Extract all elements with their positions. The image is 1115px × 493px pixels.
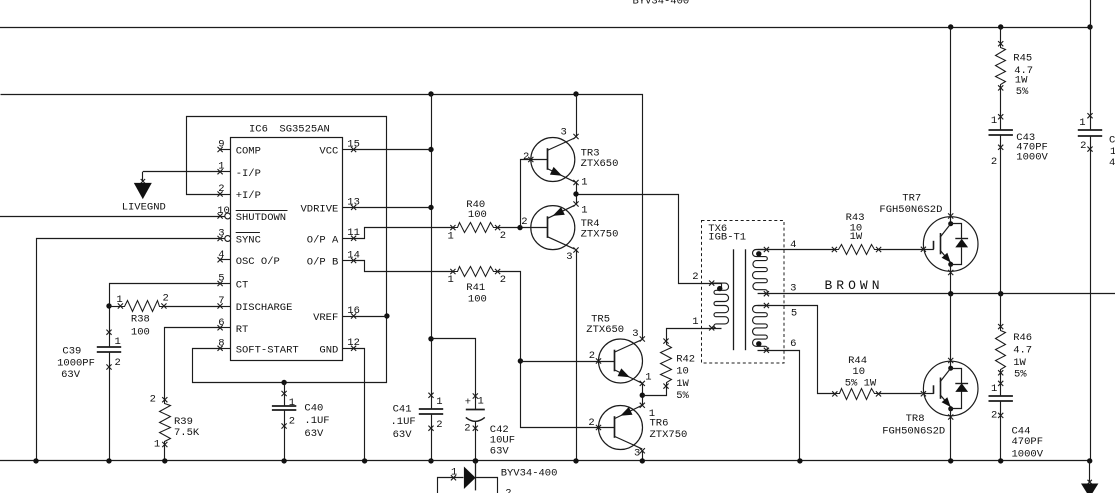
pin 12 GND of IC6 <box>319 337 360 356</box>
svg-text:VCC: VCC <box>319 146 338 158</box>
svg-text:BYV34-400: BYV34-400 <box>501 467 558 479</box>
junction rail at ground <box>428 458 433 463</box>
wire VREF to +I/P and SOFT-START loop <box>187 117 387 383</box>
wire VDRIVE pin to rail <box>354 207 431 209</box>
svg-text:5% 1W: 5% 1W <box>845 378 877 390</box>
svg-text:R45: R45 <box>1013 53 1032 65</box>
capacitor C39 <box>57 330 121 382</box>
svg-text:1: 1 <box>436 396 442 408</box>
wire TX6 pin5 to R44 <box>758 306 835 394</box>
svg-text:RT: RT <box>236 324 249 336</box>
svg-text:CT: CT <box>236 280 249 292</box>
wire R45 to C43 <box>1000 88 1002 130</box>
junction C40 ground <box>281 458 286 463</box>
junction TX6 pin6 ground <box>797 458 802 463</box>
junction CT column ground <box>106 458 111 463</box>
svg-text:2: 2 <box>589 350 595 362</box>
junction C42 branch at rail <box>428 336 433 341</box>
wire C45 column stub above rail <box>1090 0 1092 27</box>
svg-text:ZTX750: ZTX750 <box>581 229 619 241</box>
wire TR4 collector to ground <box>576 250 578 461</box>
svg-text:5%: 5% <box>1016 86 1029 98</box>
svg-text:4: 4 <box>218 249 224 261</box>
capacitor C40 <box>272 383 330 461</box>
svg-text:1W: 1W <box>1015 75 1028 87</box>
svg-text:BYV34-400: BYV34-400 <box>633 0 690 7</box>
junction diode cathode at ground rail <box>473 458 478 463</box>
svg-text:10: 10 <box>852 366 865 378</box>
junction SYNC ground <box>33 458 38 463</box>
resistor R43 <box>832 212 881 255</box>
resistor R40 <box>447 199 506 243</box>
wire TR5 emitter junction <box>642 383 644 405</box>
svg-text:BROWN: BROWN <box>825 278 884 293</box>
svg-text:1: 1 <box>1079 117 1085 129</box>
svg-text:TR6: TR6 <box>650 417 669 429</box>
svg-text:6: 6 <box>790 338 796 350</box>
svg-text:2: 2 <box>436 419 442 431</box>
resistor R44 <box>832 355 881 400</box>
svg-text:1: 1 <box>581 177 587 189</box>
wire VCC rail y=94 <box>1 95 643 340</box>
junction C42 ground <box>473 458 478 463</box>
svg-text:SOFT-START: SOFT-START <box>236 345 299 357</box>
svg-text:2: 2 <box>115 357 121 369</box>
svg-text:SHUTDOWN: SHUTDOWN <box>236 212 286 224</box>
pin 2 +I/P of IC6 <box>218 183 261 202</box>
svg-text:14: 14 <box>347 249 360 261</box>
pin 16 VREF of IC6 <box>313 305 360 324</box>
wire TR3 collector to VCC rail <box>573 94 578 139</box>
TX6 core <box>734 249 746 350</box>
transistor TR7 FGH50N6S2D IGBT <box>879 193 978 276</box>
wire TR3 base drop <box>521 160 531 228</box>
svg-text:ZTX750: ZTX750 <box>650 429 688 441</box>
junction TR5/TR6 emitters R42 <box>640 393 645 398</box>
svg-text:2: 2 <box>163 293 169 305</box>
junction R39 ground <box>162 458 167 463</box>
svg-text:5: 5 <box>791 308 797 320</box>
svg-text:2: 2 <box>289 416 295 428</box>
svg-text:1: 1 <box>115 336 121 348</box>
node BROWN <box>825 278 884 293</box>
svg-text:63V: 63V <box>61 369 81 381</box>
svg-text:GND: GND <box>319 345 338 357</box>
svg-text:9: 9 <box>218 139 224 151</box>
transformer TX6 IGB-T1 box <box>702 221 785 364</box>
svg-text:+: + <box>465 397 471 409</box>
resistor R42 <box>661 339 696 403</box>
svg-text:R39: R39 <box>174 416 193 428</box>
wire emitter junction to R42 <box>643 387 667 396</box>
svg-text:1000V: 1000V <box>1016 152 1048 164</box>
svg-text:5: 5 <box>218 273 224 285</box>
svg-text:LIVEGND: LIVEGND <box>122 201 166 213</box>
svg-text:C40: C40 <box>304 402 323 414</box>
svg-text:C39: C39 <box>62 345 81 357</box>
resistor R46 <box>996 324 1033 381</box>
svg-text:2: 2 <box>218 183 224 195</box>
pin 1 -I/P of IC6 <box>218 161 261 180</box>
pin 4 OSC O/P of IC6 <box>218 249 280 268</box>
TX6 secondary winding pins 5-6 <box>753 303 798 353</box>
svg-text:FGH50N6S2D: FGH50N6S2D <box>882 426 945 438</box>
wire R41 to TR5/TR6 bases <box>498 272 599 428</box>
pin 15 VCC of IC6 <box>319 138 360 157</box>
svg-text:1: 1 <box>218 161 224 173</box>
wire top supply rail <box>0 27 1090 29</box>
svg-text:COMP: COMP <box>236 146 261 158</box>
wire C42 branch <box>432 339 476 461</box>
svg-text:-I/P: -I/P <box>236 168 261 180</box>
wire GND pin to ground rail <box>354 349 365 461</box>
svg-text:FGH50N6S2D: FGH50N6S2D <box>879 204 942 216</box>
svg-text:5%: 5% <box>676 390 689 402</box>
svg-text:12: 12 <box>347 337 360 349</box>
svg-text:OSC O/P: OSC O/P <box>236 256 280 268</box>
transistor TR5 ZTX650 <box>586 313 651 386</box>
pin 14 O/P B of IC6 <box>307 249 360 268</box>
svg-text:O/P B: O/P B <box>307 257 339 269</box>
junction R40 / TR3 base / TR4 base <box>517 225 522 230</box>
svg-text:R41: R41 <box>466 282 485 294</box>
svg-text:400V: 400V <box>1109 157 1115 169</box>
svg-text:15: 15 <box>347 138 360 150</box>
junction top rail / TR7 collector <box>948 24 953 29</box>
pin 5 CT of IC6 <box>218 273 249 292</box>
junction top rail / R45 <box>998 24 1003 29</box>
wire RT to R39 <box>165 328 221 400</box>
svg-text:1: 1 <box>478 395 484 407</box>
svg-text:100: 100 <box>131 326 150 338</box>
svg-text:O/P A: O/P A <box>307 235 339 247</box>
svg-text:3: 3 <box>632 328 638 340</box>
svg-text:1: 1 <box>692 316 698 328</box>
ground arrow bottom right <box>1081 484 1098 493</box>
wire R46 to C44 <box>1000 373 1002 396</box>
pin 8 SOFT-START of IC6 <box>218 337 299 356</box>
transistor TR3 ZTX650 <box>523 127 618 189</box>
svg-text:2: 2 <box>588 417 594 429</box>
junction ground rail end <box>1087 458 1092 463</box>
resistor R41 <box>447 267 506 306</box>
svg-text:VREF: VREF <box>313 312 338 324</box>
wire to bottom-right ground <box>1088 461 1092 484</box>
wire top rail to TR7 collector <box>950 27 952 216</box>
svg-text:C41: C41 <box>393 403 412 415</box>
wire C45 column upper <box>1090 27 1092 130</box>
wire tap to TR5 base <box>520 361 598 363</box>
svg-text:SG3525AN: SG3525AN <box>279 124 329 136</box>
svg-text:IGB-T1: IGB-T1 <box>708 232 746 244</box>
svg-text:2: 2 <box>150 394 156 406</box>
pin 10 SHUTDOWN of IC6 <box>217 205 287 224</box>
transistor TR6 ZTX750 <box>588 403 687 460</box>
junction VCC rail / TR3 collector <box>573 91 578 96</box>
svg-text:SYNC: SYNC <box>236 235 261 247</box>
wire TX6 pin3 BROWN net <box>758 293 1115 295</box>
svg-text:1000PF: 1000PF <box>57 357 95 369</box>
junction GND return <box>362 458 367 463</box>
svg-text:13: 13 <box>347 196 360 208</box>
wire ground rail bottom <box>0 460 1090 462</box>
svg-text:4.7: 4.7 <box>1013 345 1032 357</box>
svg-text:1: 1 <box>581 204 587 216</box>
junction TR7 emitter BROWN <box>948 291 953 296</box>
junction VCC wire at rail <box>428 147 433 152</box>
svg-text:2: 2 <box>523 151 529 163</box>
svg-text:R44: R44 <box>848 355 867 367</box>
wire VREF stub <box>354 316 387 318</box>
svg-text:1: 1 <box>645 371 651 383</box>
wire VCC pin to rail <box>354 149 431 151</box>
svg-text:63V: 63V <box>304 428 324 440</box>
wire TR8 emitter to ground <box>950 417 952 461</box>
resistor R45 <box>996 41 1034 98</box>
svg-text:1: 1 <box>447 231 453 243</box>
svg-text:1W: 1W <box>1013 357 1026 369</box>
wire R39 to ground <box>164 445 166 461</box>
wire R42 to TX6 pin1 <box>667 329 722 342</box>
capacitor C43 <box>989 114 1049 168</box>
svg-text:8: 8 <box>218 337 224 349</box>
junction TR4 collector ground <box>573 458 578 463</box>
capacitor C45 (clipped labels) <box>1078 113 1115 169</box>
wire -I/P to LIVEGND <box>141 172 220 184</box>
wire SYNC to ground <box>37 239 221 461</box>
svg-text:470PF: 470PF <box>1012 436 1044 448</box>
svg-text:7: 7 <box>218 295 224 307</box>
op-amp IC6 SG3525AN body <box>231 124 343 361</box>
svg-text:1: 1 <box>289 397 295 409</box>
svg-text:100: 100 <box>468 294 487 306</box>
svg-text:63V: 63V <box>393 429 413 441</box>
svg-text:7.5K: 7.5K <box>174 427 200 439</box>
wire TX6 pin4 to R43 <box>758 249 835 251</box>
svg-text:1: 1 <box>991 115 997 127</box>
wire C43 to BROWN <box>1000 135 1002 294</box>
svg-text:ZTX650: ZTX650 <box>586 324 624 336</box>
svg-text:TR8: TR8 <box>906 413 925 425</box>
svg-text:11: 11 <box>347 227 360 239</box>
svg-text:.1UF: .1UF <box>304 415 329 427</box>
wire TX6 pin6 to ground <box>758 351 800 461</box>
svg-text:2: 2 <box>692 271 698 283</box>
svg-text:2: 2 <box>500 230 506 242</box>
svg-text:R38: R38 <box>131 314 150 326</box>
wire R40 to TR4 base <box>498 227 531 229</box>
transistor TR8 FGH50N6S2D IGBT <box>882 358 978 438</box>
resistor R38 <box>109 293 220 339</box>
svg-text:3: 3 <box>560 127 566 139</box>
wire R44 to TR8 gate <box>879 393 922 395</box>
svg-text:1: 1 <box>991 383 997 395</box>
svg-text:2: 2 <box>505 488 511 493</box>
TX6 secondary winding pins 4-3 <box>753 239 797 296</box>
junction R45 column BROWN <box>998 291 1003 296</box>
svg-text:3: 3 <box>566 251 572 263</box>
capacitor C42 electrolytic <box>464 393 515 457</box>
svg-text:+I/P: +I/P <box>236 190 261 202</box>
junction C40 on loop <box>281 380 286 385</box>
pin 11 O/P A of IC6 <box>307 227 360 246</box>
svg-text:1: 1 <box>116 294 122 306</box>
svg-text:2: 2 <box>1080 140 1086 152</box>
junction TR5 base tap <box>518 358 523 363</box>
wire BROWN to R46 <box>1000 294 1002 327</box>
resistor R39 <box>150 394 200 451</box>
pin 6 RT of IC6 <box>218 317 249 336</box>
svg-text:2: 2 <box>991 156 997 168</box>
svg-text:1W: 1W <box>676 378 689 390</box>
pin 9 COMP of IC6 <box>218 139 261 158</box>
svg-text:2: 2 <box>464 422 470 434</box>
svg-text:IC6: IC6 <box>249 124 268 136</box>
pin 3 SYNC of IC6 <box>218 228 261 247</box>
svg-text:2: 2 <box>500 274 506 286</box>
wire TR7 emitter to BROWN <box>950 273 952 294</box>
svg-text:10: 10 <box>217 205 230 217</box>
wire CT branch <box>110 284 221 461</box>
svg-text:2: 2 <box>991 409 997 421</box>
junction VCC rail / main vertical <box>428 91 433 96</box>
svg-text:3: 3 <box>634 447 640 459</box>
svg-text:C45: C45 <box>1109 134 1115 146</box>
svg-text:1: 1 <box>447 274 453 286</box>
svg-text:1W: 1W <box>850 231 863 243</box>
svg-text:1: 1 <box>451 466 457 478</box>
svg-text:100: 100 <box>468 209 487 221</box>
svg-text:R42: R42 <box>676 353 695 365</box>
svg-text:ZTX650: ZTX650 <box>581 158 619 170</box>
junction top rail / C45 column <box>1087 24 1092 29</box>
TX6 primary winding pins 2-1 <box>692 271 728 330</box>
svg-text:16: 16 <box>347 305 360 317</box>
svg-text:VDRIVE: VDRIVE <box>300 204 338 216</box>
ground LIVEGND <box>122 183 166 213</box>
junction TR6 collector ground <box>640 458 645 463</box>
clipped label BYV34-400 at top edge <box>633 0 690 7</box>
wire O/P B to R41 <box>354 261 453 272</box>
svg-text:5%: 5% <box>1014 369 1027 381</box>
pin 7 DISCHARGE of IC6 <box>218 295 293 314</box>
svg-text:R46: R46 <box>1013 332 1032 344</box>
junction VDRIVE wire at rail <box>428 205 433 210</box>
junction CT/R38 <box>106 303 111 308</box>
svg-text:.1UF: .1UF <box>391 416 416 428</box>
svg-text:2: 2 <box>521 216 527 228</box>
junction TR3/TR4 emitters <box>573 191 578 196</box>
transistor TR4 ZTX750 <box>521 201 618 263</box>
junction TR8 emitter ground <box>948 458 953 463</box>
pin 13 VDRIVE of IC6 <box>300 196 359 215</box>
svg-text:TR7: TR7 <box>902 193 921 205</box>
wire O/P A to R40 <box>354 228 453 239</box>
svg-text:3: 3 <box>218 228 224 240</box>
junction C44 ground <box>998 458 1003 463</box>
wire C45 to ground corner <box>1090 136 1092 461</box>
svg-text:3: 3 <box>790 283 796 295</box>
wire C44 to ground <box>1000 401 1002 461</box>
wire main vertical rail x=431 <box>431 94 433 461</box>
diode D? BYV34-400 <box>438 461 558 493</box>
capacitor C41 <box>391 393 444 441</box>
capacitor C44 <box>989 381 1044 461</box>
junction VREF on loop <box>384 313 389 318</box>
wire TR6 collector to ground <box>642 451 644 461</box>
svg-text:10: 10 <box>676 366 689 378</box>
wire R43 to TR7 gate <box>879 249 923 251</box>
svg-text:DISCHARGE: DISCHARGE <box>236 302 293 314</box>
svg-text:1000V: 1000V <box>1012 448 1044 460</box>
wire SHUTDOWN to left edge <box>0 216 220 218</box>
svg-text:1: 1 <box>154 438 160 450</box>
wire BROWN to TR8 collector <box>950 294 952 360</box>
svg-text:63V: 63V <box>490 445 510 457</box>
wire TR3 emitter to TR4 emitter and TX6 <box>577 183 722 289</box>
wire top rail to R45 <box>1000 27 1002 44</box>
